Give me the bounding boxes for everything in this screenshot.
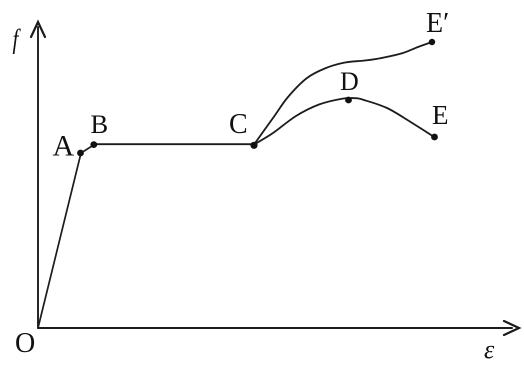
curve C to D to E	[254, 98, 434, 145]
x axis arrowhead	[504, 321, 519, 335]
svg-text:B: B	[91, 109, 109, 139]
y axis arrowhead	[31, 22, 45, 37]
svg-text:A: A	[53, 130, 75, 163]
curve C to E'	[254, 42, 432, 145]
svg-text:ε: ε	[484, 335, 495, 364]
svg-text:E: E	[432, 100, 449, 130]
svg-text:E′: E′	[426, 8, 449, 39]
node B dot	[90, 141, 97, 148]
svg-text:f: f	[13, 25, 22, 55]
svg-text:D: D	[340, 67, 359, 96]
svg-text:O: O	[15, 328, 35, 359]
node E' dot	[429, 39, 435, 45]
node D dot	[345, 97, 352, 104]
wire O to A	[38, 153, 81, 328]
svg-text:C: C	[229, 109, 248, 140]
wire A to B	[81, 145, 94, 153]
node A dot	[77, 150, 84, 157]
node E dot	[431, 134, 438, 141]
node C dot	[250, 142, 257, 149]
x axis	[38, 327, 512, 329]
y axis	[37, 27, 39, 328]
wire B to C (yield plateau)	[94, 143, 254, 145]
